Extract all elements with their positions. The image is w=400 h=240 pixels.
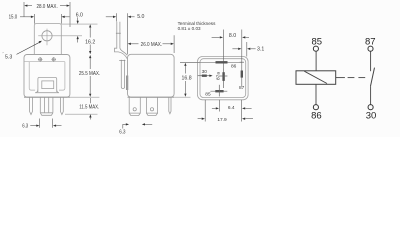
svg-text:3.1: 3.1 — [257, 47, 264, 53]
dimension 5.0 — [106, 13, 135, 54]
coil diagonal — [304, 71, 327, 83]
contact blade — [371, 68, 375, 87]
body bottom edge (side) — [128, 96, 175, 98]
bracket hole tick — [116, 32, 121, 34]
terminal 87 (bottom view) — [240, 61, 244, 63]
inner cover seam — [25, 62, 65, 90]
pin tip extension line — [65, 113, 98, 115]
wire coil to 86 — [315, 84, 317, 104]
actuator link (dashed) — [336, 77, 345, 79]
svg-text:25.5 MAX.: 25.5 MAX. — [79, 71, 100, 77]
dimension 17.9 — [204, 100, 206, 122]
blade terminal 1 (side) — [129, 97, 140, 115]
svg-text:6.3: 6.3 — [119, 130, 125, 136]
svg-text:6.3: 6.3 — [22, 124, 28, 130]
blade terminal 2 (side) — [146, 97, 157, 115]
extension line hole center — [54, 35, 83, 37]
dimension 25.5 MAX. — [89, 55, 91, 58]
dimension 6.4 — [218, 100, 220, 112]
bracket clip dark bar — [126, 76, 128, 91]
svg-text:6.0: 6.0 — [76, 12, 83, 18]
svg-text:16.8: 16.8 — [182, 76, 192, 82]
extension line tab top — [61, 23, 97, 25]
svg-text:30: 30 — [366, 110, 377, 121]
dimension 16.2 — [89, 24, 91, 27]
svg-text:6.4: 6.4 — [228, 105, 235, 111]
svg-text:5.3: 5.3 — [5, 55, 12, 61]
terminal 87a (bottom view) — [223, 69, 225, 89]
body outline — [24, 55, 70, 98]
connector shroud — [35, 77, 59, 92]
svg-text:16.2: 16.2 — [85, 39, 95, 45]
dimension 11.5 MAX. — [89, 98, 91, 103]
svg-text:30: 30 — [202, 69, 208, 75]
svg-text:86: 86 — [311, 110, 322, 121]
dimension 6.3 (front view) — [30, 119, 61, 128]
inner outline (bottom view) — [200, 59, 246, 98]
svg-text:26.0 MAX.: 26.0 MAX. — [141, 42, 163, 48]
coil K1 — [296, 71, 336, 85]
dimension 26.0 MAX. — [173, 35, 175, 53]
pin right — [61, 97, 64, 114]
dimension 16.8 — [180, 61, 200, 63]
svg-text:17.9: 17.9 — [217, 117, 227, 123]
rivet right — [51, 57, 56, 62]
outer outline (bottom view) — [198, 57, 249, 100]
shroud inner rect — [42, 81, 54, 89]
dimension 8.0 — [222, 30, 224, 69]
svg-text:0.81 ± 0.03: 0.81 ± 0.03 — [178, 26, 201, 31]
svg-text:87a: 87a — [216, 72, 222, 80]
wire 87 to contact — [370, 51, 372, 71]
round pin (side) — [169, 97, 171, 114]
mounting hole — [42, 31, 52, 41]
bracket lower strip — [121, 60, 124, 89]
blade cluster — [40, 97, 53, 115]
terminal circle 87 — [368, 46, 373, 51]
terminal circle 30 — [368, 105, 373, 110]
svg-text:11.5 MAX.: 11.5 MAX. — [79, 104, 99, 110]
terminal 85 (bottom view) — [210, 90, 227, 92]
svg-text:87: 87 — [239, 85, 245, 91]
svg-text:85: 85 — [312, 36, 323, 47]
mounting bracket (side) — [115, 22, 128, 59]
svg-text:85: 85 — [205, 91, 211, 97]
svg-text:5.0: 5.0 — [137, 14, 144, 20]
terminal 86 (bottom view) — [180, 61, 242, 63]
wire contact to 30 — [370, 86, 372, 104]
body outline (side) — [128, 54, 175, 97]
dimension 3.1 — [246, 42, 248, 57]
svg-text:87: 87 — [365, 36, 376, 47]
wire 85 to coil — [315, 51, 317, 71]
dimension 15.0 — [20, 14, 70, 24]
dimension 6.3 (side view) — [123, 124, 126, 128]
mounting tab — [34, 24, 61, 55]
rivet left — [38, 57, 43, 62]
dimension 28.0 MAX. — [24, 2, 70, 27]
svg-text:86: 86 — [231, 63, 237, 69]
terminal circle 85 — [313, 46, 318, 51]
body bottom edge — [24, 96, 70, 98]
svg-text:28.0 MAX.: 28.0 MAX. — [36, 4, 57, 10]
pin left — [30, 97, 33, 114]
svg-text:15.0: 15.0 — [9, 15, 18, 21]
svg-text:8.0: 8.0 — [229, 33, 236, 39]
terminal circle 86 — [313, 105, 318, 110]
